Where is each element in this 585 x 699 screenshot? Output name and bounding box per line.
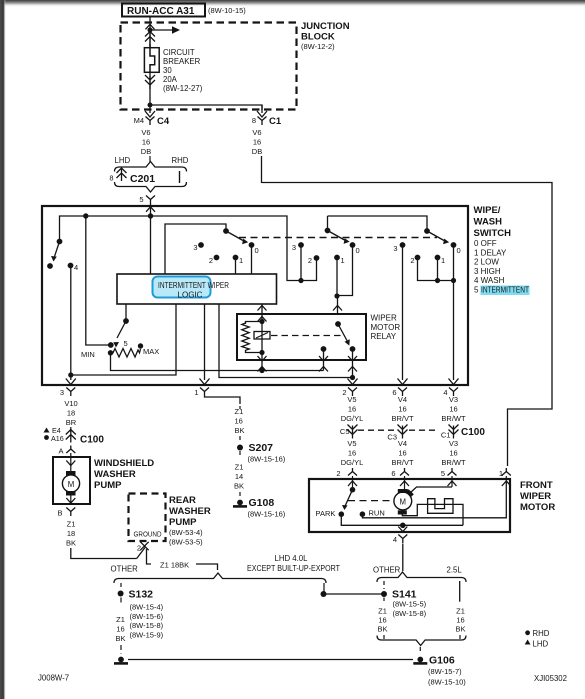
svg-text:(8W-15-9): (8W-15-9)	[130, 630, 164, 639]
svg-text:V10: V10	[64, 399, 77, 408]
wire pin 1 to S207	[205, 396, 241, 404]
relay pin chevron (coil side, inside)	[258, 317, 267, 322]
svg-text:2: 2	[308, 256, 312, 265]
wire section A contact 0 to logic	[251, 245, 253, 274]
svg-text:16: 16	[253, 138, 261, 147]
wire logic to relay coil	[261, 304, 263, 322]
motor brush upper-right (angled)	[406, 489, 414, 497]
svg-text:(8W-15-16): (8W-15-16)	[248, 510, 286, 519]
svg-text:Z1: Z1	[235, 463, 244, 472]
connector chevron at junction block entry	[146, 24, 155, 29]
svg-text:16: 16	[398, 405, 406, 414]
section B arm with arrow	[328, 231, 345, 241]
park switch arm with arrow	[345, 490, 352, 506]
svg-text:C4: C4	[157, 116, 170, 127]
wash switch upper contact	[57, 239, 63, 245]
wash switch lower contact	[47, 263, 53, 269]
wire circuit breaker output	[149, 73, 151, 105]
svg-text:LHD: LHD	[533, 640, 549, 649]
svg-text:FRONT: FRONT	[520, 480, 553, 491]
svg-text:BK: BK	[455, 625, 465, 634]
node junction dot pin 4 (motor ground)	[400, 523, 406, 529]
wiper motor relay box	[237, 314, 366, 360]
svg-text:WIPER: WIPER	[520, 491, 551, 502]
node junction dot wash wire / logic feed	[68, 372, 73, 377]
legend RHD marker	[525, 630, 530, 635]
svg-text:BK: BK	[234, 482, 244, 491]
svg-text:(8W-15-16): (8W-15-16)	[248, 455, 286, 464]
svg-text:DB: DB	[141, 147, 151, 156]
svg-text:CIRCUIT: CIRCUIT	[163, 48, 195, 57]
section B contact 1	[334, 255, 340, 261]
svg-text:BK: BK	[235, 426, 245, 435]
svg-text:BR/VT: BR/VT	[391, 414, 414, 423]
svg-text:BR: BR	[66, 418, 77, 427]
motor brush bottom	[398, 510, 407, 514]
section A contact 1	[233, 255, 239, 261]
relay arm with arrow	[338, 324, 348, 342]
svg-text:16: 16	[449, 405, 457, 414]
wire pin5 dot into logic box	[150, 216, 152, 274]
wire pin 1 inside	[505, 476, 507, 481]
svg-text:1: 1	[499, 469, 503, 478]
svg-text:RHD: RHD	[533, 629, 550, 638]
section C contact 1	[435, 255, 441, 261]
svg-text:3: 3	[60, 388, 64, 397]
svg-text:PUMP: PUMP	[169, 517, 197, 528]
svg-text:(8W-15-10): (8W-15-10)	[428, 678, 466, 687]
svg-text:JUNCTION: JUNCTION	[301, 21, 350, 32]
wire dashed drop to S141	[383, 581, 385, 589]
svg-text:RUN-ACC A31: RUN-ACC A31	[127, 6, 195, 17]
svg-text:B: B	[57, 509, 62, 518]
svg-text:S132: S132	[129, 589, 154, 601]
svg-text:BK: BK	[115, 634, 125, 643]
wire 2.5L leg	[459, 581, 461, 602]
svg-text:V3: V3	[449, 439, 458, 448]
svg-text:2: 2	[336, 469, 340, 478]
svg-text:(8W-12-2): (8W-12-2)	[301, 42, 335, 51]
svg-text:5: 5	[124, 339, 128, 348]
brace split OTHER / 2.5L	[377, 572, 466, 582]
svg-text:Z1 18BK: Z1 18BK	[160, 561, 189, 570]
svg-text:4: 4	[74, 263, 78, 272]
dashed connector line C5-C3	[358, 429, 395, 431]
svg-text:5: 5	[474, 286, 479, 295]
svg-text:BK: BK	[377, 625, 387, 634]
svg-text:3 HIGH: 3 HIGH	[474, 267, 501, 276]
svg-text:LHD: LHD	[115, 156, 131, 165]
wire riser to logic box	[175, 304, 177, 371]
svg-text:2: 2	[137, 544, 141, 553]
node dot delay-arm pivot	[123, 318, 129, 324]
svg-text:0: 0	[457, 246, 461, 255]
pot wiper arm with arrow	[117, 321, 126, 338]
wire relay coil return below box	[261, 353, 263, 371]
wire section C contact 3 to pin 6	[402, 245, 404, 380]
svg-text:1: 1	[441, 256, 445, 265]
wire V6 DB run from C1 to front wiper motor pin 1	[261, 156, 263, 183]
section C contact 0	[451, 242, 457, 248]
svg-text:J008W-7: J008W-7	[38, 674, 69, 683]
connector double chevron below circuit breaker	[145, 75, 155, 89]
svg-text:BLOCK: BLOCK	[301, 32, 335, 43]
wire pot feed from bus	[86, 216, 111, 345]
svg-text:2: 2	[342, 388, 346, 397]
svg-text:16: 16	[378, 616, 386, 625]
wire logic output to relay common feed	[219, 304, 352, 378]
wire RUN-ACC A31 feed into junction block	[149, 17, 151, 49]
wire Z1 16 BK (S132 to ground)	[120, 598, 122, 606]
svg-text:3: 3	[393, 244, 397, 253]
svg-text:8: 8	[252, 116, 256, 125]
wire pot bottom to logic box riser	[111, 353, 263, 371]
windshield washer pump box	[53, 457, 90, 504]
node splice dot at junction block output	[148, 103, 153, 108]
svg-text:0 OFF: 0 OFF	[474, 239, 497, 248]
svg-text:MIN: MIN	[81, 350, 95, 359]
wire stub into C201	[149, 156, 151, 162]
svg-text:SWITCH: SWITCH	[474, 228, 512, 239]
wire pivot to logic box	[125, 304, 127, 321]
svg-text:PARK: PARK	[316, 509, 336, 518]
svg-text:G106: G106	[429, 655, 455, 667]
wire motor return path around park cam	[402, 504, 463, 525]
splice S132	[118, 591, 124, 597]
svg-text:INTERMITTENT WIPER: INTERMITTENT WIPER	[158, 281, 229, 290]
svg-text:RUN: RUN	[369, 509, 385, 518]
intermittent wiper logic box	[117, 274, 277, 304]
label INTERMITTENT WIPER LOGIC with highlight	[153, 277, 211, 298]
svg-text:4: 4	[443, 388, 447, 397]
svg-text:BK: BK	[66, 539, 76, 548]
wire dashed to S207	[239, 436, 241, 443]
section B pivot feed from bus2	[328, 216, 428, 231]
svg-text:RELAY: RELAY	[371, 332, 397, 341]
dashed connector line C3-C1	[409, 429, 437, 431]
wire dashed drop to S132	[120, 583, 122, 590]
relay NC contact	[321, 346, 327, 352]
svg-text:16: 16	[116, 625, 124, 634]
svg-text:V5: V5	[347, 395, 356, 404]
svg-text:Z1: Z1	[378, 607, 387, 616]
svg-text:LHD 4.0L: LHD 4.0L	[275, 554, 309, 563]
motor brush top	[398, 489, 408, 493]
svg-text:REAR: REAR	[169, 495, 196, 506]
svg-text:MOTOR: MOTOR	[520, 502, 555, 513]
svg-text:2.5L: 2.5L	[447, 566, 463, 575]
svg-text:WASHER: WASHER	[94, 469, 136, 480]
section B pivot dot	[325, 228, 331, 234]
connector C201 (brace top)	[115, 162, 187, 172]
wire NO contact to pin 2	[352, 349, 354, 380]
svg-text:(8W-15-8): (8W-15-8)	[393, 609, 427, 618]
page left dark bar	[0, 0, 6, 699]
resistor (relay suppression)	[246, 322, 263, 325]
front wiper motor box	[309, 479, 510, 532]
svg-text:C5: C5	[340, 427, 350, 436]
svg-text:EXCEPT BUILT-UP-EXPORT: EXCEPT BUILT-UP-EXPORT	[247, 564, 340, 573]
section C arm with arrow	[427, 231, 444, 241]
svg-text:V5: V5	[347, 439, 356, 448]
svg-text:XJI05302: XJI05302	[534, 674, 567, 683]
svg-text:(8W-15-8): (8W-15-8)	[130, 621, 164, 630]
svg-text:3: 3	[292, 243, 296, 252]
wire section A contact 1 to logic	[235, 258, 237, 275]
svg-text:1: 1	[239, 256, 243, 265]
svg-text:16: 16	[348, 405, 356, 414]
svg-text:M4: M4	[134, 116, 144, 125]
wire pin 5 to motor brush	[451, 476, 453, 487]
node RUN-ACC A31 (fused feed box)	[122, 4, 205, 17]
wire junction to S141	[324, 593, 384, 595]
svg-text:16: 16	[398, 449, 406, 458]
wire to split brace	[196, 564, 218, 570]
section C pivot dot	[424, 228, 430, 234]
splice S141	[381, 591, 387, 597]
wire section C contact 0 to pin 4	[453, 245, 455, 380]
svg-text:OTHER: OTHER	[111, 565, 139, 574]
resistor delay pot	[108, 350, 113, 355]
svg-text:2 LOW: 2 LOW	[474, 258, 499, 267]
node relay return to pot/wash bus	[259, 368, 264, 373]
svg-text:G108: G108	[249, 497, 275, 509]
svg-text:C3: C3	[387, 433, 397, 442]
svg-text:M: M	[68, 480, 75, 489]
svg-text:WIPE/: WIPE/	[474, 205, 501, 216]
arrow exit to C1	[261, 105, 263, 113]
svg-text:(8W-15-4): (8W-15-4)	[130, 603, 164, 612]
wire washer pump return run	[71, 548, 137, 559]
svg-text:GROUND: GROUND	[134, 530, 162, 539]
wire contact 4 down to pin 3	[70, 266, 72, 376]
svg-text:16: 16	[235, 417, 243, 426]
wire bus from pin 5 inside switch	[60, 216, 317, 281]
svg-text:6: 6	[392, 388, 396, 397]
wire rear washer ground joins washer return	[137, 548, 145, 559]
wire pin 2 inside	[352, 476, 354, 490]
svg-text:Z1: Z1	[116, 615, 125, 624]
section A contact 0	[249, 242, 255, 248]
ground G108	[237, 500, 243, 506]
svg-text:V6: V6	[252, 128, 261, 137]
svg-text:WINDSHIELD: WINDSHIELD	[94, 458, 154, 469]
svg-text:LOGIC: LOGIC	[178, 291, 203, 300]
svg-text:16: 16	[449, 449, 457, 458]
ground G106	[417, 657, 423, 663]
svg-text:6: 6	[391, 469, 395, 478]
node junction relay feed	[350, 375, 355, 380]
section B contact 0	[350, 242, 356, 248]
brace join to G106	[377, 636, 466, 646]
svg-text:Z1: Z1	[67, 520, 76, 529]
legend LHD marker	[525, 640, 531, 645]
switch section A feeder from logic	[165, 224, 226, 274]
svg-text:DG/YL: DG/YL	[341, 458, 364, 467]
wire park contact to ground bus	[341, 514, 463, 525]
svg-text:14: 14	[235, 472, 243, 481]
ground G at S132 leg	[118, 657, 124, 663]
svg-text:(8W-15-7): (8W-15-7)	[428, 667, 462, 676]
svg-text:C100: C100	[461, 427, 485, 438]
svg-text:V4: V4	[398, 395, 407, 404]
relay coil node top	[259, 319, 264, 324]
park contact	[339, 511, 345, 517]
svg-text:INTERMITTENT: INTERMITTENT	[481, 286, 529, 295]
svg-text:MAX: MAX	[143, 347, 159, 356]
svg-text:(8W-53-5): (8W-53-5)	[169, 538, 203, 547]
wire Z1 16 BK (S141 leg)	[383, 598, 385, 602]
svg-text:8: 8	[109, 174, 113, 183]
svg-text:2: 2	[209, 256, 213, 265]
svg-text:5: 5	[139, 195, 143, 204]
svg-text:DB: DB	[252, 147, 262, 156]
svg-text:RHD: RHD	[172, 156, 189, 165]
svg-text:(8W-12-27): (8W-12-27)	[163, 84, 203, 93]
svg-text:5: 5	[441, 469, 445, 478]
svg-text:(8W-15-6): (8W-15-6)	[130, 612, 164, 621]
wire dashed drop to G106	[419, 647, 421, 654]
svg-text:Z1: Z1	[235, 407, 244, 416]
wire across junction block bottom to C1	[150, 105, 262, 110]
wire stub to C100	[70, 427, 72, 432]
relay coil (box with slash)	[254, 332, 270, 340]
wire section B contact 3 riser	[300, 245, 302, 281]
svg-text:1: 1	[341, 256, 345, 265]
svg-text:C1: C1	[269, 116, 282, 127]
svg-text:M: M	[400, 498, 407, 507]
svg-text:WIPER: WIPER	[371, 314, 397, 323]
svg-text:OTHER: OTHER	[373, 566, 401, 575]
svg-text:V3: V3	[449, 395, 458, 404]
svg-text:DG/YL: DG/YL	[341, 414, 364, 423]
circuit breaker symbol	[144, 48, 159, 73]
marker dot A16	[44, 435, 49, 440]
park switch common	[350, 487, 356, 493]
svg-text:18: 18	[67, 409, 75, 418]
wire logic to ground pin 1	[204, 304, 206, 380]
arrow exit to C4	[149, 105, 151, 113]
svg-text:(8W-10-15): (8W-10-15)	[208, 6, 246, 15]
wipe/wash switch box	[42, 206, 468, 385]
wire branch to right with arrow (other circuits)	[150, 29, 172, 31]
svg-text:WASH: WASH	[474, 217, 503, 228]
wire ground bus to G106	[128, 659, 413, 661]
svg-text:20A: 20A	[163, 75, 178, 84]
svg-text:3: 3	[193, 243, 197, 252]
svg-text:Z1: Z1	[456, 607, 465, 616]
svg-text:C201: C201	[130, 173, 155, 185]
contact 4 (wash)	[68, 263, 74, 269]
svg-text:V4: V4	[398, 439, 407, 448]
svg-text:30: 30	[163, 66, 172, 75]
wire section C contacts join	[418, 258, 454, 281]
relay common node	[335, 321, 341, 327]
relay NO contact	[350, 346, 356, 352]
rear washer pump dashed box	[129, 494, 166, 542]
svg-text:4 WASH: 4 WASH	[474, 276, 505, 285]
node splice dot on feed	[148, 28, 153, 33]
connector C201 (brace bottom)	[115, 182, 187, 192]
washer pump motor M	[70, 457, 72, 471]
svg-text:PUMP: PUMP	[94, 480, 122, 491]
node splice dot pot feed	[83, 213, 88, 218]
svg-text:16: 16	[348, 449, 356, 458]
wire Z1 14 BK to G108	[239, 451, 241, 458]
svg-text:2: 2	[410, 256, 414, 265]
connector double chevron above circuit breaker	[145, 32, 155, 45]
svg-text:BR/WT: BR/WT	[441, 458, 466, 467]
svg-text:A16: A16	[51, 434, 64, 443]
brace split OTHER / LHD 4.0L	[114, 573, 326, 583]
splice S207	[237, 445, 243, 451]
svg-text:V6: V6	[141, 128, 150, 137]
svg-text:1: 1	[194, 388, 198, 397]
wire run contact to pin 1	[362, 481, 506, 518]
park cam symbol	[428, 499, 453, 514]
wire NC contact to bus	[323, 349, 325, 371]
wire pin 4 exit	[402, 525, 404, 527]
junction block dashed box	[121, 23, 297, 110]
svg-text:4: 4	[393, 535, 397, 544]
wire wash contact lateral to riser	[71, 371, 176, 376]
svg-text:16: 16	[142, 138, 150, 147]
wire drop from brace to LHD4.0L junction	[323, 583, 325, 594]
svg-text:BR/VT: BR/VT	[391, 458, 414, 467]
svg-text:A: A	[58, 447, 63, 456]
section A pivot dot	[223, 228, 229, 234]
svg-text:MOTOR: MOTOR	[371, 323, 401, 332]
svg-text:BREAKER: BREAKER	[163, 57, 201, 66]
svg-text:(8W-53-4): (8W-53-4)	[169, 528, 203, 537]
svg-text:1 DELAY: 1 DELAY	[474, 248, 507, 257]
svg-text:0: 0	[255, 246, 259, 255]
svg-text:C100: C100	[80, 435, 104, 446]
svg-text:18: 18	[67, 529, 75, 538]
section A arm with arrow	[226, 231, 243, 241]
run contact	[360, 511, 366, 517]
svg-text:BR/WT: BR/WT	[441, 414, 466, 423]
relay coil node bottom	[259, 350, 264, 355]
svg-text:WASHER: WASHER	[169, 506, 211, 517]
svg-text:S207: S207	[249, 442, 274, 454]
wire through coil	[261, 322, 263, 353]
dashed mechanical link line	[239, 237, 437, 239]
wire section B junction to relay	[337, 296, 339, 314]
wire front wiper ground down to brace 2	[402, 544, 404, 572]
svg-text:(8W-15-5): (8W-15-5)	[393, 600, 427, 609]
svg-text:16: 16	[456, 616, 464, 625]
node junction dot (LHD 4.0L branch)	[321, 591, 327, 597]
marker triangle E4	[44, 428, 50, 433]
connector C100 double chevron (washer)	[66, 430, 76, 443]
dashed relay actuation link	[271, 335, 341, 337]
wire pin 6 to motor	[404, 476, 406, 492]
motor M (front wiper)	[394, 492, 412, 510]
wire section B contacts 0+1 join	[337, 245, 353, 296]
node splice dot pin5 entry	[148, 213, 153, 218]
pot wiper contact	[108, 342, 114, 348]
dashed park linkage	[348, 500, 392, 502]
svg-text:0: 0	[356, 246, 360, 255]
wash switch arm with arrow	[55, 242, 60, 257]
